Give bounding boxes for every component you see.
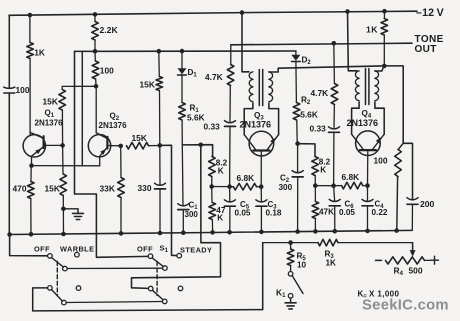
- switch warble A pole: [63, 266, 68, 271]
- transistor Q1 2N1376: [23, 132, 45, 165]
- svg-text:STEADY: STEADY: [180, 246, 212, 255]
- node 8.2K/47K b: [313, 183, 318, 188]
- resistor R3 1K: [318, 239, 338, 246]
- svg-text:0.33: 0.33: [204, 122, 221, 132]
- svg-text:0.33: 0.33: [310, 124, 327, 134]
- svg-text:K: K: [217, 214, 223, 223]
- svg-text:K: K: [218, 167, 224, 176]
- svg-text:100: 100: [374, 156, 388, 166]
- wire T1 primary bottom to Q3: [244, 103, 253, 134]
- resistor 100 (Q2 collector load): [92, 51, 99, 86]
- node R2 / 8.2K b / C2: [295, 141, 300, 146]
- switch warble B arm: [52, 290, 63, 302]
- svg-text:0.22: 0.22: [372, 208, 388, 217]
- transformer T2 secondary winding: [375, 71, 379, 101]
- resistor R1 5.6K: [179, 75, 186, 145]
- label 470: [13, 184, 27, 194]
- label 0.05 (C6): [339, 208, 355, 217]
- svg-text:Q1: Q1: [45, 109, 55, 120]
- watermark SeekIC.com: [362, 298, 449, 314]
- resistor 1K (Q1 collector load): [27, 15, 34, 135]
- label 0.22 (C4): [372, 208, 388, 217]
- R4 wiper arrow: [410, 250, 416, 257]
- transformer T2 core: [366, 69, 369, 105]
- node rail / C4: [365, 229, 370, 234]
- label C6: [345, 200, 355, 211]
- label 0.05 (C5): [235, 209, 251, 218]
- capacitor C2 300: [292, 144, 303, 232]
- capacitor 330: [155, 145, 166, 232]
- label K a: [218, 167, 224, 176]
- label R4: [394, 266, 404, 278]
- switch S1 B contact 2: [178, 286, 183, 291]
- svg-text:OFF: OFF: [34, 245, 50, 254]
- label 5.6K (R1): [187, 113, 205, 123]
- label 1K (R3): [326, 259, 337, 268]
- label 2N1376 (Q3): [240, 120, 272, 130]
- svg-text:K: K: [320, 166, 326, 175]
- wire warble B to bottom loop: [33, 243, 263, 311]
- svg-text:K1: K1: [276, 288, 286, 300]
- label R5: [297, 252, 307, 263]
- label 15K (mid): [140, 80, 155, 90]
- switch S1 B arm: [152, 290, 163, 300]
- svg-text:D1: D1: [188, 68, 198, 79]
- capacitor 0.33 a: [225, 121, 236, 187]
- wire rail right end to 200 cap: [0, 0, 1, 1]
- switch warble A arm: [52, 258, 64, 268]
- node Q3 base / 6.8K / C3: [259, 184, 264, 189]
- node top rail / 1K R-a: [28, 13, 33, 18]
- wire multivibrator rail (line A): [75, 50, 297, 52]
- label Q1: [45, 109, 55, 120]
- switch S1 A contact OFF: [148, 254, 153, 259]
- switch warble A contact WARBLE: [75, 252, 80, 257]
- label 47K b: [319, 208, 334, 217]
- capacitor 100 (left): [4, 87, 15, 93]
- wire rail to warble switch: [10, 235, 48, 256]
- svg-text:D2: D2: [302, 56, 312, 67]
- wire T1 secondary bottom to Q3: [269, 103, 279, 134]
- label 2N1376 (Q1): [35, 119, 64, 128]
- transistor Q3 2N1376: [244, 131, 278, 186]
- svg-text:4.7K: 4.7K: [205, 72, 223, 82]
- label 100 (Q2 load): [100, 66, 114, 76]
- label 300 (C1): [185, 210, 199, 219]
- transformer T1 core: [259, 70, 262, 106]
- transformer T1 secondary winding: [269, 72, 273, 102]
- node rail / 330: [158, 231, 163, 236]
- node 0.33b column: [331, 183, 336, 188]
- wire secondary node to right column: [384, 66, 403, 143]
- svg-text:100: 100: [100, 66, 114, 76]
- resistor 33K: [118, 146, 125, 233]
- node rail / 47K b: [313, 229, 318, 234]
- wire emitter line Q1-Q2: [32, 165, 100, 167]
- resistor 100 (right): [395, 143, 404, 230]
- node top rail / 1K R-b: [382, 9, 387, 14]
- svg-text:47K: 47K: [319, 208, 334, 217]
- label 4.7K a: [205, 72, 223, 82]
- switch warble B contact 1: [48, 286, 53, 291]
- resistor 1K (tone out load): [381, 11, 388, 66]
- wire junction to S1 steady column: [160, 145, 177, 255]
- label R1: [190, 104, 200, 115]
- switch S1 B contact 1: [148, 286, 153, 291]
- label C4: [375, 200, 385, 211]
- svg-text:0.18: 0.18: [266, 209, 282, 218]
- svg-text:33K: 33K: [100, 184, 115, 194]
- node Q1 base / 15K junction: [60, 143, 65, 148]
- capacitor C5 0.05: [224, 187, 235, 233]
- resistor 2.2K: [92, 14, 99, 51]
- ground (K1): [285, 298, 296, 309]
- node top rail / 2.2K: [93, 12, 98, 17]
- label 15K (Q1 base): [43, 97, 58, 107]
- resistor 6.8K b: [334, 182, 368, 189]
- wire D2 to R2: [295, 62, 298, 103]
- svg-text:R4: R4: [394, 266, 404, 278]
- resistor R2 5.6K: [293, 103, 300, 144]
- svg-text:470: 470: [13, 184, 27, 194]
- svg-text:100: 100: [16, 85, 30, 95]
- wire line A to emitter line: [81, 51, 83, 165]
- svg-text:R2: R2: [301, 96, 311, 107]
- label 8.2 b: [319, 158, 331, 167]
- node 15K / 330 junction: [158, 143, 163, 148]
- transformer T2 primary winding: [355, 71, 359, 101]
- label 4.7K b: [311, 88, 329, 98]
- node rail / 15K lower: [61, 232, 66, 237]
- label K1: [276, 288, 286, 300]
- label -12V: [416, 7, 444, 19]
- resistor 470: [28, 166, 35, 235]
- svg-text:15K: 15K: [45, 184, 60, 194]
- label 1K (left): [34, 47, 45, 57]
- svg-text:6.8K: 6.8K: [237, 173, 255, 183]
- label plus (R4): [431, 256, 439, 264]
- svg-text:S1: S1: [160, 244, 169, 255]
- label 47 a: [216, 206, 226, 215]
- label K b: [320, 166, 326, 175]
- label 10 (R5): [297, 261, 307, 270]
- capacitor C4 0.22: [362, 186, 373, 231]
- label 1K (right): [366, 25, 378, 35]
- node rail / C2: [295, 229, 300, 234]
- svg-text:1K: 1K: [366, 25, 378, 35]
- wire T2 primary feed: [348, 12, 357, 71]
- label OFF (S1): [137, 245, 153, 254]
- label 330: [138, 183, 152, 193]
- svg-text:1K: 1K: [326, 259, 337, 268]
- svg-text:1K: 1K: [34, 47, 45, 57]
- svg-text:0.05: 0.05: [339, 208, 355, 217]
- label D1: [188, 68, 198, 79]
- wire T2 secondary bottom to Q4: [375, 102, 384, 134]
- resistor 8.2K b: [312, 157, 319, 186]
- switch S1 A pole: [163, 266, 168, 271]
- svg-text:2N1376: 2N1376: [240, 120, 272, 130]
- label Q2: [110, 112, 120, 123]
- svg-text:2N1376: 2N1376: [99, 121, 128, 130]
- switch S1 A arm: [152, 258, 163, 267]
- label Q4: [362, 109, 372, 120]
- resistor 15K (Q1 base): [59, 86, 66, 145]
- svg-text:330: 330: [138, 183, 152, 193]
- transistor Q4 2N1376: [352, 131, 385, 186]
- node line A / 15K mid: [157, 49, 162, 54]
- node Q2 collector / 15K cross-couple: [94, 84, 99, 89]
- label 500 (R4): [409, 266, 423, 276]
- wire top supply rail -12V: [9, 11, 417, 15]
- node R1 / S1 wire: [199, 143, 204, 148]
- svg-text:15K: 15K: [43, 97, 58, 107]
- resistor 4.7K b: [331, 43, 338, 128]
- label 2.2K: [100, 25, 119, 35]
- label 6.8K b: [342, 172, 360, 182]
- diode D1: [178, 51, 187, 75]
- wire T1 secondary top to node: [269, 66, 384, 72]
- wire right column branch: [403, 143, 412, 199]
- diode D2: [291, 51, 300, 62]
- label 2N1376 (Q4): [347, 118, 379, 128]
- switch K1 lower contact: [288, 294, 293, 299]
- switch warble B pole: [62, 300, 67, 305]
- label 6.8K a: [237, 173, 255, 183]
- svg-text:5.6K: 5.6K: [300, 110, 318, 120]
- resistor R4 500 potentiometer: [376, 257, 431, 264]
- resistor 47K a: [209, 187, 216, 233]
- label 15K (Q2 base): [132, 133, 147, 143]
- switch S1 B pole: [162, 299, 167, 304]
- wire R1 node to 8.2K a: [182, 145, 212, 157]
- svg-text:2N1376: 2N1376: [347, 118, 379, 128]
- wire R2 node to 8.2K b: [298, 144, 315, 157]
- node rail / C5: [227, 230, 232, 235]
- resistor 4.7K a: [227, 45, 234, 122]
- resistor 8.2K a: [209, 157, 216, 187]
- node tone 1K / secondaries: [382, 64, 387, 69]
- node rail / C1: [181, 230, 186, 235]
- resistor 6.8K a: [230, 183, 262, 190]
- label minus terminal: [0, 0, 1, 1]
- node rail / 100 right: [394, 228, 399, 233]
- wire R3 to R4 wiper: [412, 243, 414, 252]
- node top rail / T2 feed: [345, 9, 350, 14]
- wire 8.2K-4.7K link b: [315, 185, 333, 187]
- label 100 (right): [374, 156, 388, 166]
- wire left branch with C 100: [8, 15, 10, 234]
- node 15K lower / ground tap: [61, 207, 66, 212]
- resistor R5 10: [287, 243, 294, 272]
- svg-text:500: 500: [409, 266, 423, 276]
- resistor 15K mid (from line A): [156, 51, 163, 145]
- wire 8.2K-4.7K link a: [212, 186, 230, 188]
- svg-text:0.05: 0.05: [235, 209, 251, 218]
- wire Q1 base: [44, 144, 63, 146]
- wire Q1 base 15K jog: [62, 85, 96, 87]
- label R3: [325, 250, 335, 261]
- svg-text:OUT: OUT: [415, 44, 437, 55]
- wire warble A pole to S1: [67, 267, 162, 269]
- node rail / 470: [29, 232, 34, 237]
- resistor 15K (lower, Q1 base): [60, 145, 67, 234]
- node Q4 base / 6.8K / C4: [365, 183, 370, 188]
- node Q2 base / 15K junction: [118, 144, 123, 149]
- capacitor C1 300: [178, 145, 189, 233]
- wire R5-R3 line: [263, 242, 413, 244]
- switch warble B contact 2: [76, 286, 81, 291]
- svg-text:6.8K: 6.8K: [342, 172, 360, 182]
- capacitor 0.33 b: [329, 127, 340, 186]
- switch S1 mechanical link: [156, 262, 158, 296]
- switch S1 A contact STEADY: [177, 253, 182, 258]
- node line A / D1: [180, 49, 185, 54]
- switch warble mechanical link: [56, 262, 58, 296]
- resistor 47K b: [312, 186, 319, 232]
- node Q1 emitter / 470: [29, 163, 34, 168]
- wire rail end up to 200: [0, 0, 1, 1]
- label C1: [189, 201, 199, 212]
- label C3: [268, 200, 278, 211]
- svg-text:4.7K: 4.7K: [311, 88, 329, 98]
- switch warble A contact OFF: [48, 254, 53, 259]
- wire T2 primary bottom to Q4: [352, 102, 360, 134]
- node rail / 33K: [119, 231, 124, 236]
- svg-text:2N1376: 2N1376: [35, 119, 64, 128]
- transformer T1 primary winding: [249, 72, 253, 102]
- wire bottom common rail: [10, 230, 412, 234]
- wire T2 secondary top to node: [375, 66, 384, 71]
- resistor 15K (Q2 base coupling): [127, 142, 160, 149]
- label 100 (left cap): [16, 85, 30, 95]
- label OUT: [415, 44, 437, 55]
- label TONE: [415, 34, 444, 45]
- wire tone output line (line B): [231, 43, 412, 45]
- wire line A drop to S1: [75, 51, 149, 257]
- label K x1000 note: [358, 290, 400, 301]
- wire T1 primary feed: [242, 13, 249, 72]
- label C2: [280, 174, 290, 185]
- label 0.18 (C3): [266, 209, 282, 218]
- label K a2: [217, 214, 223, 223]
- label 200: [420, 199, 435, 209]
- label WARBLE: [60, 245, 94, 254]
- wire warble B pole to S1: [66, 302, 162, 303]
- node rail / C3: [259, 230, 264, 235]
- capacitor C3 0.18: [256, 187, 267, 232]
- node R5 top: [288, 240, 293, 245]
- label OFF (warble sw): [34, 245, 50, 254]
- wire S1 hook from node: [132, 145, 221, 289]
- svg-text:2.2K: 2.2K: [100, 25, 119, 35]
- svg-text:SeekIC.com: SeekIC.com: [362, 298, 449, 314]
- capacitor 200: [407, 198, 418, 231]
- label C5: [240, 200, 250, 211]
- node rail / C6: [333, 229, 338, 234]
- svg-text:200: 200: [420, 199, 435, 209]
- svg-text:15K: 15K: [140, 80, 155, 90]
- svg-text:15K: 15K: [132, 133, 147, 143]
- node top rail / T1 feed: [240, 10, 245, 15]
- transistor Q2 2N1376: [88, 86, 110, 166]
- svg-text:5.6K: 5.6K: [187, 113, 205, 123]
- label D2: [302, 56, 312, 67]
- label 5.6K (R2): [300, 110, 318, 120]
- label R2: [301, 96, 311, 107]
- label 33K: [100, 184, 115, 194]
- label 2N1376 (Q2): [99, 121, 128, 130]
- label Q3: [254, 111, 264, 122]
- node rail / 47K a: [210, 230, 215, 235]
- node line A / 2.2K / 100: [93, 49, 98, 54]
- wire Q2 base: [107, 145, 120, 147]
- label STEADY: [180, 246, 212, 255]
- label 300 (C2): [279, 183, 293, 192]
- node line B / 4.7K b: [332, 41, 337, 46]
- switch K1 upper contact: [288, 272, 293, 277]
- switch K1 arm: [292, 276, 303, 294]
- ground (multivibrator): [63, 209, 83, 220]
- label 0.33 b: [310, 124, 327, 134]
- svg-text:–12 V: –12 V: [416, 7, 444, 19]
- svg-text:300: 300: [279, 183, 293, 192]
- label 0.33 a: [204, 122, 221, 132]
- svg-text:300: 300: [185, 210, 199, 219]
- svg-text:10: 10: [297, 261, 307, 270]
- label 8.2 a: [216, 159, 228, 168]
- label S1: [160, 244, 169, 255]
- node 0.33a column: [227, 184, 232, 189]
- svg-text:OFF: OFF: [137, 245, 153, 254]
- node 8.2K/47K a: [209, 184, 214, 189]
- capacitor C6 0.05: [329, 186, 340, 231]
- node rail / left: [7, 232, 12, 237]
- label 15K (lower): [45, 184, 60, 194]
